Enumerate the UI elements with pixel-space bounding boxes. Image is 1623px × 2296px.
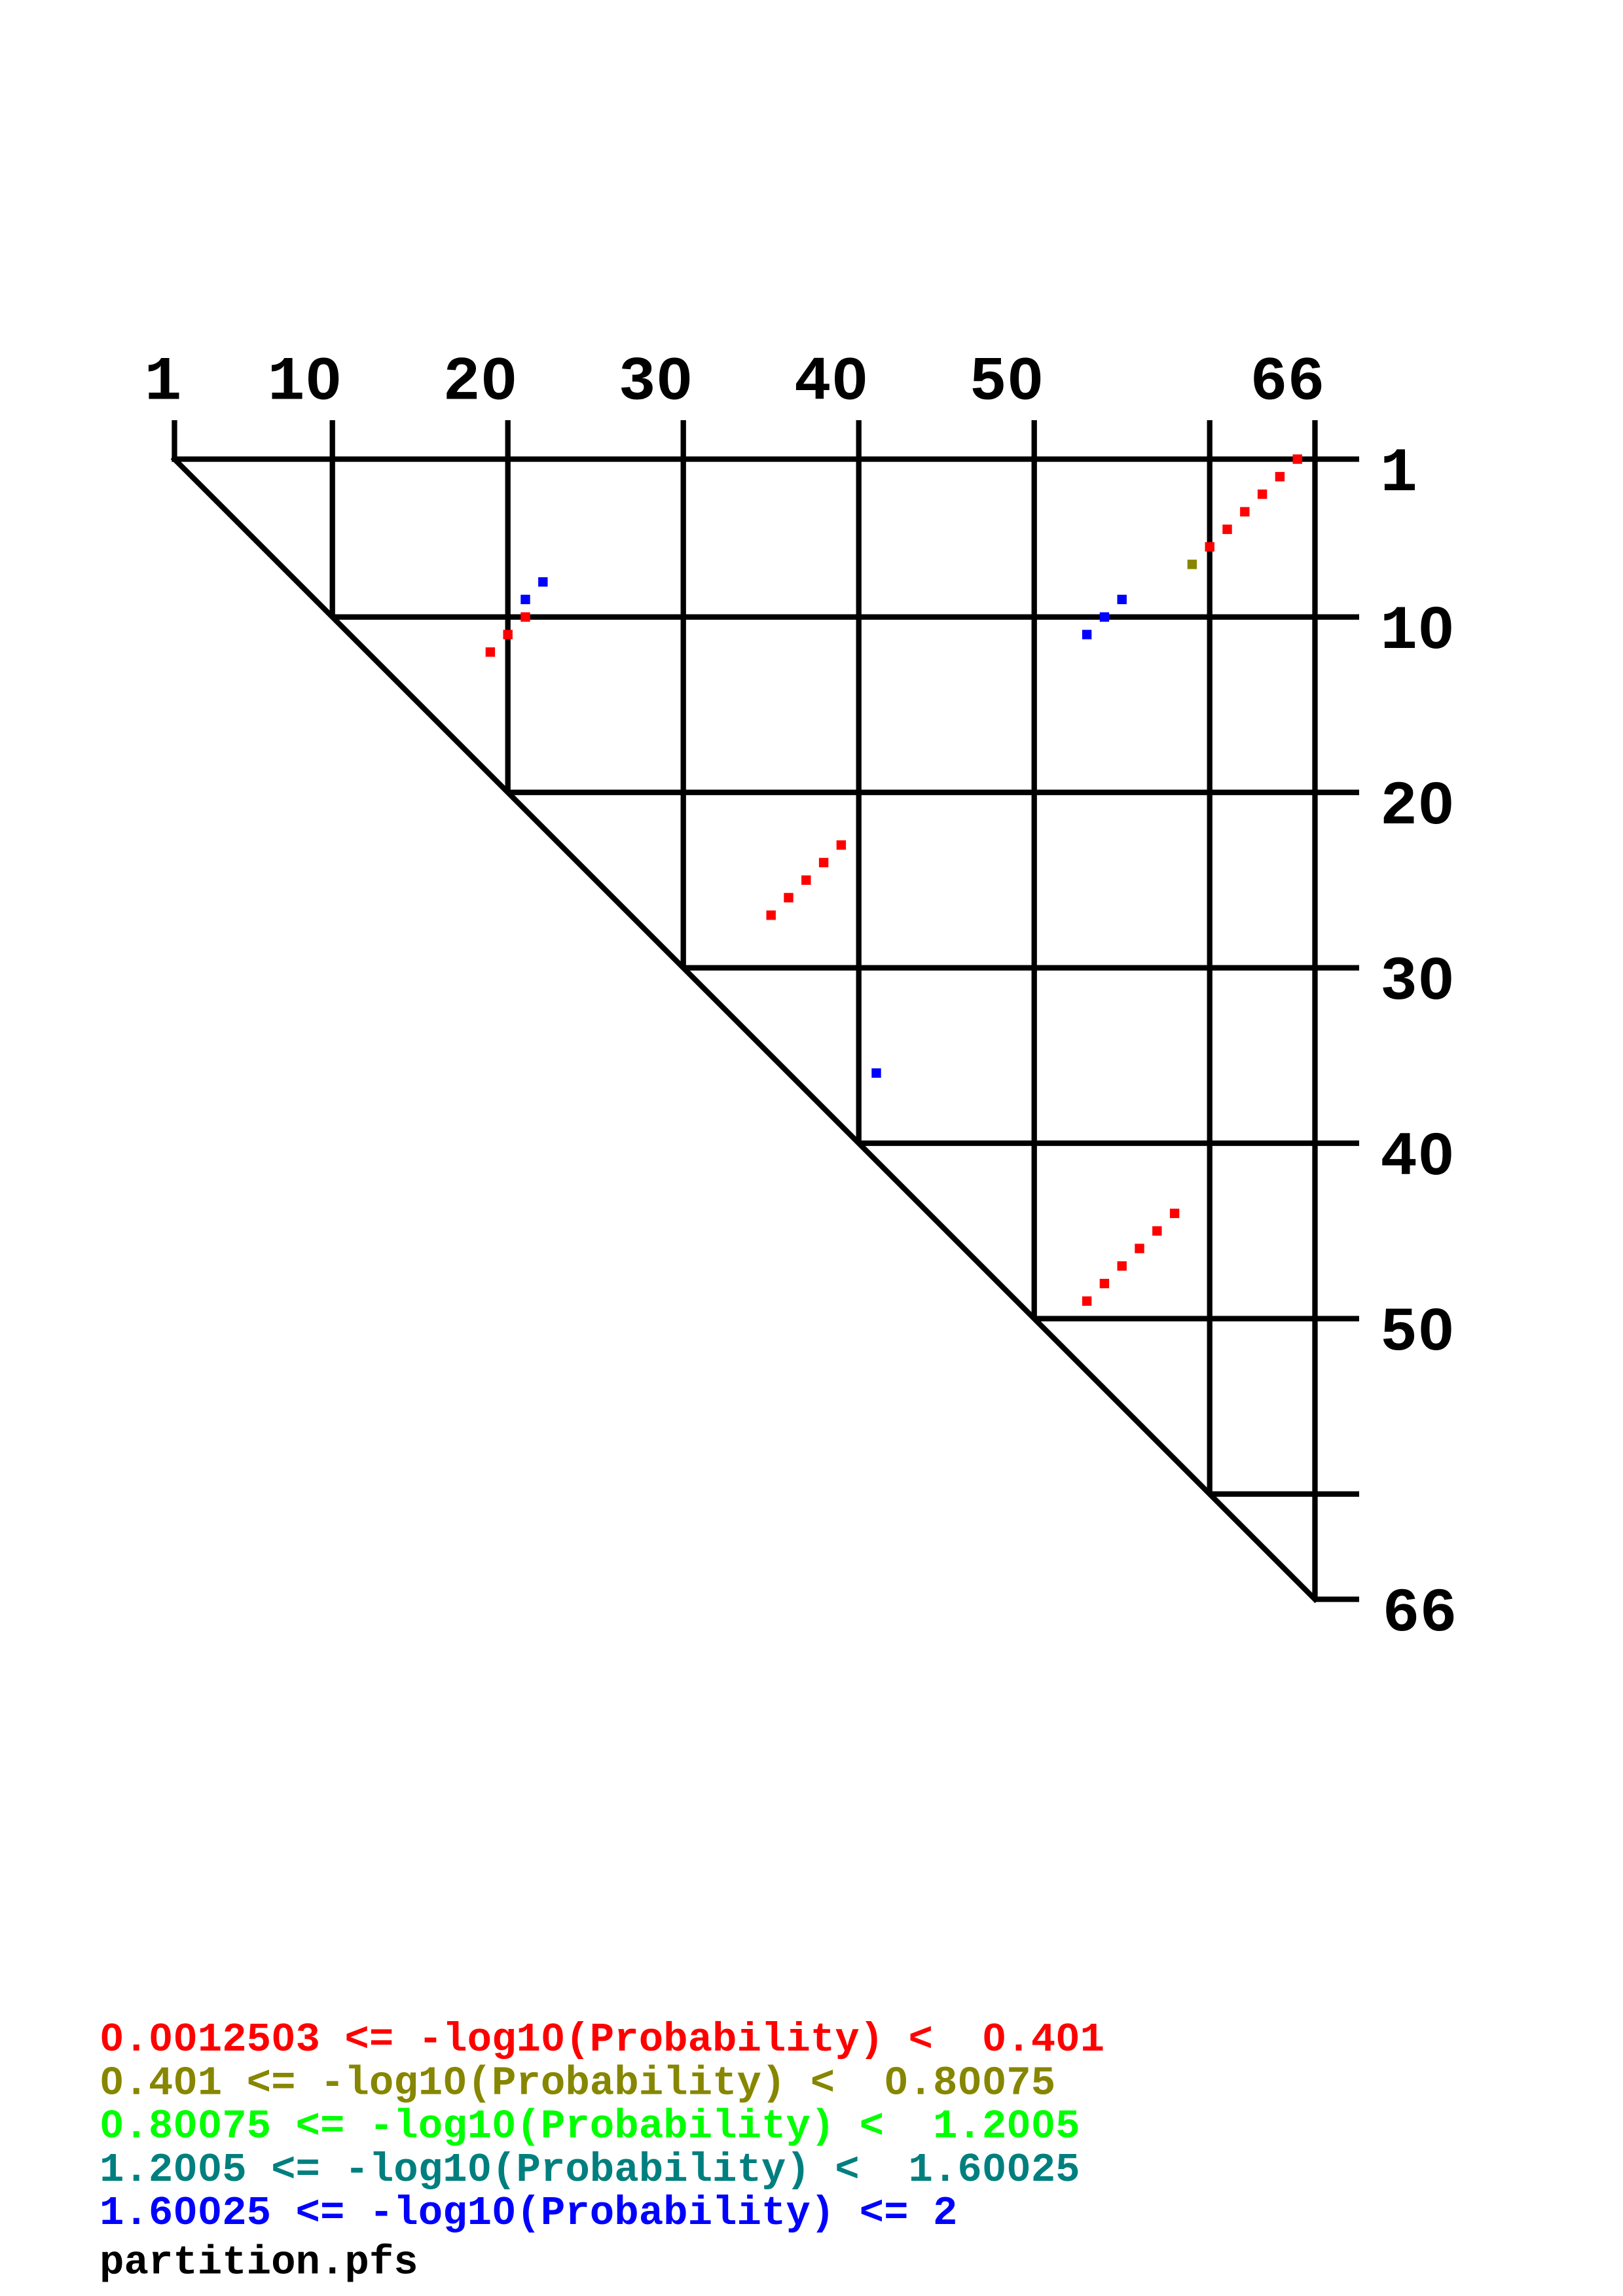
svg-text:10: 10: [268, 348, 342, 418]
red dot P1-3 pair i=3 j=63: [1258, 490, 1267, 499]
bottom tick row 66: [1315, 1596, 1360, 1602]
svg-text:50: 50: [1380, 1298, 1455, 1369]
vertical grid line column 66: [1312, 420, 1317, 1600]
red dot P1-6 pair i=6 j=60: [1205, 542, 1214, 551]
horizontal grid line row 60: [1210, 1492, 1359, 1497]
top axis line row 1: [172, 456, 1359, 461]
red dot P6-4 pair i=47 j=55: [1118, 1261, 1127, 1270]
red dot P6-5 pair i=48 j=54: [1100, 1279, 1109, 1288]
horizontal grid line row 30: [684, 965, 1359, 971]
svg-text:30: 30: [1380, 947, 1455, 1018]
red dot P4-4 pair i=26 j=36: [784, 893, 793, 902]
svg-text:0.80075 <= -log10(Probability): 0.80075 <= -log10(Probability) < 1.2005: [100, 2104, 1080, 2150]
blue dot P3-1 pair i=9 j=55: [1118, 595, 1127, 604]
red dot P4-1 pair i=23 j=39: [837, 840, 846, 850]
red dot P6-2 pair i=45 j=57: [1152, 1227, 1161, 1236]
vertical grid line column 40: [856, 420, 862, 1143]
vertical grid line column 60: [1207, 420, 1213, 1494]
svg-text:66: 66: [1250, 348, 1324, 418]
red dot P1-2 pair i=2 j=64: [1275, 472, 1285, 481]
svg-text:1.2005 <= -log10(Probability): 1.2005 <= -log10(Probability) < 1.60025: [100, 2147, 1080, 2193]
blue dot P2-2 pair i=9 j=21: [520, 595, 530, 604]
horizontal grid line row 40: [859, 1141, 1359, 1146]
diagonal boundary line: [175, 459, 1315, 1600]
svg-text:0.401 <= -log10(Probability) <: 0.401 <= -log10(Probability) < 0.80075: [100, 2060, 1055, 2106]
svg-text:1: 1: [144, 348, 181, 418]
blue dot P5-1 pair i=36 j=41: [871, 1068, 881, 1077]
red dot P4-3 pair i=25 j=37: [801, 876, 811, 885]
red dot P2-5 pair i=12 j=19: [486, 647, 495, 656]
svg-text:partition.pfs: partition.pfs: [100, 2240, 418, 2286]
vertical grid line column 20: [505, 420, 511, 793]
blue dot P3-3 pair i=11 j=53: [1082, 630, 1091, 639]
red dot P1-5 pair i=5 j=61: [1222, 525, 1231, 534]
horizontal grid line row 20: [508, 790, 1359, 795]
vertical grid line column 30: [681, 420, 686, 968]
red dot P4-5 pair i=27 j=35: [767, 910, 776, 920]
red dot P1-1 pair i=1 j=65: [1293, 454, 1302, 463]
vertical grid line column 10: [330, 420, 335, 617]
horizontal grid line row 50: [1034, 1316, 1359, 1321]
red dot P2-3 pair i=10 j=21: [520, 613, 530, 622]
blue dot P2-1 pair i=8 j=22: [538, 577, 547, 586]
svg-text:40: 40: [794, 348, 869, 418]
red dot P1-4 pair i=4 j=62: [1240, 507, 1249, 516]
svg-text:0.0012503 <= -log10(Probabilit: 0.0012503 <= -log10(Probability) < 0.401: [100, 2017, 1104, 2063]
red dot P6-1 pair i=44 j=58: [1170, 1209, 1179, 1218]
svg-text:30: 30: [619, 348, 693, 418]
svg-text:1.60025 <= -log10(Probability): 1.60025 <= -log10(Probability) <= 2: [100, 2190, 957, 2236]
svg-text:40: 40: [1380, 1122, 1455, 1193]
red dot P2-4 pair i=11 j=20: [503, 630, 513, 639]
svg-text:10: 10: [1380, 596, 1455, 667]
vertical grid line column 50: [1032, 420, 1037, 1319]
red dot P6-3 pair i=46 j=56: [1135, 1244, 1144, 1253]
blue dot P3-2 pair i=10 j=54: [1100, 613, 1109, 622]
svg-text:20: 20: [443, 348, 518, 418]
zero-glyph counter masks: [319, 373, 328, 384]
red dot P4-2 pair i=24 j=38: [819, 858, 828, 867]
horizontal grid line row 10: [333, 615, 1359, 620]
olive dot P1-7 pair i=7 j=59: [1188, 560, 1197, 569]
svg-text:20: 20: [1380, 772, 1455, 842]
svg-text:50: 50: [970, 348, 1044, 418]
top tick column 1: [172, 420, 177, 462]
red dot P6-6 pair i=49 j=53: [1082, 1297, 1091, 1306]
svg-text:1: 1: [1380, 439, 1417, 509]
svg-text:66: 66: [1383, 1579, 1457, 1649]
